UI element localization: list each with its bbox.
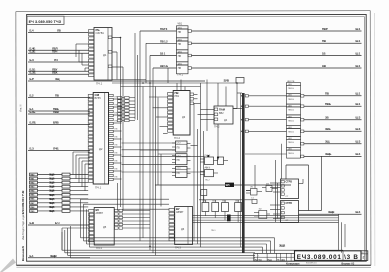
svg-text:ПВБ: ПВБ (325, 102, 331, 106)
svg-text:ПВ: ПВ (325, 92, 329, 96)
svg-text:1В: 1В (322, 51, 325, 55)
svg-text:Ш.1: Ш.1 (356, 92, 361, 96)
svg-text:ПВВ: ПВВ (53, 110, 59, 114)
svg-text:Формат А3: Формат А3 (341, 261, 355, 265)
svg-text:ЗЩ: ЗЩ (55, 77, 60, 81)
svg-text:Ш.3: Ш.3 (356, 140, 361, 144)
wire bus to D8 (245, 105, 286, 107)
svg-text:ПВ: ПВ (55, 94, 59, 98)
svg-text:Б.1: Б.1 (30, 254, 34, 258)
svg-text:ПЧ.1: ПЧ.1 (96, 82, 103, 86)
resistor pack RP2 (118, 97, 136, 122)
svg-text:Ш.3: Ш.3 (356, 127, 361, 131)
resistor R1 (202, 200, 209, 216)
svg-text:ПВ: ПВ (178, 31, 182, 34)
title block doc number (295, 251, 362, 261)
wire loop around D5 (81, 199, 90, 247)
svg-text:Д6: Д6 (181, 227, 185, 231)
svg-text:Лист: Лист (258, 260, 262, 262)
svg-text:Ш.4: Ш.4 (356, 152, 361, 156)
wire bus left riser (61, 228, 63, 250)
svg-text:ВУ55: ВУ55 (95, 96, 102, 100)
svg-text:ЗЩВ: ЗЩВ (49, 186, 55, 189)
svg-text:ПЧ.2: ПЧ.2 (174, 136, 180, 140)
svg-text:ПЧ.1: ПЧ.1 (95, 186, 102, 190)
IC D4 register (198, 106, 238, 160)
svg-text:ЕЧ3.089.001 \3 В: ЕЧ3.089.001 \3 В (297, 254, 359, 261)
svg-text:Б.Р: Б.Р (30, 77, 34, 81)
svg-text:ЧВ1: ЧВ1 (178, 23, 183, 26)
svg-text:Ш.3: Ш.3 (356, 116, 361, 120)
svg-text:1: 1 (258, 256, 259, 258)
svg-text:ПАР 3: ПАР 3 (160, 27, 168, 31)
svg-text:ПВ1.Б: ПВ1.Б (288, 121, 295, 123)
wire ЗУ1 net (155, 183, 291, 188)
svg-text:Инв. N: Инв. N (20, 104, 23, 112)
svg-text:Ш.1: Ш.1 (356, 27, 361, 31)
svg-text:Б.ЗБ: Б.ЗБ (30, 70, 36, 74)
wire vertical risers (118, 31, 345, 255)
svg-text:ЗЩВ: ЗЩВ (49, 210, 55, 213)
svg-text:ЗЩВ: ЗЩВ (49, 190, 55, 193)
svg-text:ЗЩВ: ЗЩВ (49, 194, 55, 197)
wire Б.ЛБ input (28, 121, 90, 125)
svg-text:Б.4: Б.4 (30, 29, 34, 33)
resistor R3 (222, 200, 229, 220)
svg-text:ЗВБ: ЗВБ (325, 127, 331, 131)
capacitor C1 (251, 198, 257, 204)
IC D2 processor (88, 93, 108, 190)
wire Б.2Б input (28, 49, 89, 53)
wire Б.4Б input (28, 46, 89, 50)
svg-text:ТВЧ: ТВЧ (52, 49, 57, 53)
gate G1 (200, 155, 218, 169)
IC D12 counter (172, 154, 191, 165)
svg-text:ЕЧ3.089.001 ТЧЗ: ЕЧ3.089.001 ТЧЗ (21, 190, 25, 214)
svg-text:ЛВХ: ЛВХ (52, 70, 58, 74)
wire D2 to counters (122, 143, 205, 172)
svg-text:Инв.N подл. Подп. и дата: Инв.N подл. Подп. и дата (22, 212, 25, 240)
wire col2 in4 drop (167, 68, 169, 83)
svg-text:СТРБ: СТРБ (286, 202, 293, 205)
buffer stack D8 (282, 81, 301, 179)
IC D6 latch (169, 207, 193, 250)
svg-text:ПВ1.Б: ПВ1.Б (288, 142, 295, 144)
wire ПАР 3 input (140, 27, 177, 31)
IC D3 decoder (168, 91, 201, 140)
wire Б.З input (28, 58, 89, 62)
svg-text:Б.ЛБ: Б.ЛБ (30, 121, 36, 125)
svg-text:ЗЩВ: ЗЩВ (49, 174, 55, 177)
svg-text:СТРБ: СТРБ (286, 181, 293, 184)
wire ПВ to connector (301, 92, 362, 98)
svg-text:ЧВ1 ПВ: ЧВ1 ПВ (287, 81, 295, 83)
svg-text:ПЧ.1: ПЧ.1 (178, 73, 184, 76)
svg-text:Б.В: Б.В (30, 221, 34, 225)
wire НВ output (188, 64, 362, 69)
svg-text:ПЧ.2: ПЧ.2 (214, 126, 220, 129)
wire Б.Р long (28, 77, 205, 81)
IC D2 right pins (109, 94, 122, 180)
svg-text:Д2: Д2 (99, 147, 103, 151)
wire bus group A (81, 238, 275, 254)
svg-text:Взам.инв.N: Взам.инв.N (21, 246, 25, 261)
IC D5 right pins (115, 209, 151, 229)
wire bus to D8 (245, 95, 286, 97)
svg-text:ЗЩВ: ЗЩВ (279, 243, 285, 247)
gate E3 (262, 184, 278, 192)
title block list box (361, 251, 368, 261)
wire Б.1 bottom (28, 254, 90, 258)
wire ЗЩВ to connector (299, 210, 362, 214)
svg-text:ЕЧ 3.089.050 ТЧЗ: ЕЧ 3.089.050 ТЧЗ (29, 20, 62, 24)
svg-text:Б.З: Б.З (30, 58, 34, 62)
wire jogs to D1 pins (76, 44, 89, 71)
wire ПВБ to connector (301, 102, 362, 108)
svg-text:N док: N док (268, 260, 272, 262)
wire Б.1Б input (28, 110, 90, 114)
svg-text:ЛЧ: ЛЧ (54, 58, 58, 62)
comparator stack D2 (177, 23, 189, 77)
svg-text:ПВ1.Б: ПВ1.Б (288, 110, 295, 112)
wire staircase to D3 (149, 97, 168, 134)
svg-text:ПЧ.3: ПЧ.3 (175, 246, 181, 250)
svg-text:ПВ1.Б: ПВ1.Б (288, 88, 295, 90)
footer text (286, 261, 355, 265)
svg-text:ЕЧ3.089.001: ЕЧ3.089.001 (306, 263, 317, 265)
wire horizontal links (112, 80, 252, 200)
svg-text:ПВ: ПВ (177, 160, 181, 162)
svg-text:ГЧ1.2: ГЧ1.2 (205, 167, 211, 169)
svg-text:ЗЩВ: ЗЩВ (50, 254, 58, 258)
svg-text:ОЗУВ1: ОЗУВ1 (96, 31, 105, 35)
IC D9 trigger (270, 179, 303, 199)
svg-text:ЗЩ: ЗЩ (325, 140, 330, 144)
document stamp (top-left) (27, 16, 64, 24)
svg-text:ЗВ: ЗВ (325, 116, 329, 120)
wire ЗЩБ to connector (301, 152, 362, 158)
svg-text:ЗЩВ: ЗЩВ (328, 210, 334, 214)
wire bus to stack bottom (245, 153, 287, 155)
gate G3 (207, 155, 228, 165)
wire data bus D6 out (193, 216, 339, 223)
resistor network RP1 (30, 173, 89, 213)
wire 1В 1 input (150, 52, 177, 56)
drawing frame (27, 15, 367, 262)
svg-text:Ш.1: Ш.1 (356, 51, 361, 55)
wire Б.В input (28, 221, 89, 225)
wire ПВР output (188, 27, 362, 33)
IC D11 counter (172, 141, 191, 152)
svg-text:НВ: НВ (322, 64, 326, 68)
wire D5 to D6 (81, 199, 170, 209)
left margin stamp text (20, 104, 26, 261)
wire bus to D8 (245, 130, 286, 132)
svg-text:Г: Г (363, 256, 365, 260)
wire Б.З input (28, 147, 90, 151)
wire ПВ 1.2 input (146, 39, 177, 43)
svg-text:Д1: Д1 (103, 53, 107, 57)
svg-text:ЗЩБ: ЗЩБ (325, 152, 331, 156)
svg-text:ЛЧБ: ЛЧБ (53, 147, 59, 151)
resistor R2 (212, 200, 219, 218)
svg-text:АВ5ВТ: АВ5ВТ (96, 212, 104, 215)
svg-text:Б.1Б: Б.1Б (30, 110, 36, 114)
wire feedback loop (286, 156, 322, 210)
svg-text:ПВ: ПВ (322, 39, 326, 43)
svg-text:Копировал: Копировал (286, 261, 300, 265)
svg-text:ЗЩВ: ЗЩВ (49, 202, 55, 205)
svg-text:ПВ: ПВ (177, 148, 181, 150)
svg-text:Д5: Д5 (103, 225, 107, 229)
title block table (254, 253, 295, 261)
svg-text:Д3: Д3 (182, 115, 186, 119)
wire НВ 1.Б input (153, 64, 177, 68)
svg-text:Лист: Лист (362, 252, 365, 254)
wire Б.1 input (28, 107, 90, 111)
svg-text:ЗЩВ: ЗЩВ (49, 198, 55, 201)
svg-text:ПВ: ПВ (178, 43, 182, 46)
svg-text:АВ5ВТ: АВ5ВТ (176, 211, 184, 214)
svg-text:Ш.1: Ш.1 (356, 64, 361, 68)
svg-text:Б.З: Б.З (30, 147, 34, 151)
diode VD1 (227, 215, 231, 222)
wire resistor top rail (199, 199, 242, 201)
IC D10 trigger (270, 201, 299, 223)
IC D1 RAM (89, 28, 123, 86)
gate E1 (246, 187, 262, 196)
svg-text:Ш.4: Ш.4 (356, 210, 361, 214)
svg-text:Ш.1: Ш.1 (356, 102, 361, 106)
svg-text:ПВ1.Б: ПВ1.Б (288, 153, 295, 155)
svg-text:ПВ 1.2: ПВ 1.2 (160, 39, 168, 43)
wire bus group B (62, 226, 343, 261)
svg-text:Б.2: Б.2 (30, 94, 34, 98)
svg-text:ПВ1.Б: ПВ1.Б (288, 99, 295, 101)
wire ЗВ to connector (301, 116, 362, 122)
svg-text:НВ 1.Б: НВ 1.Б (160, 64, 168, 68)
svg-text:ПВР: ПВР (322, 27, 328, 31)
svg-text:Б.2Б: Б.2Б (30, 49, 36, 53)
svg-text:ЗЩВ: ЗЩВ (49, 206, 55, 209)
IC D13 counter (172, 166, 191, 177)
junctions (120, 37, 243, 247)
wire ПВ output (188, 39, 362, 45)
wire 1В output (188, 51, 362, 57)
svg-text:ПВ: ПВ (177, 173, 181, 175)
IC D5 latch (89, 208, 115, 251)
svg-text:Ш.1: Ш.1 (356, 39, 361, 43)
gate G2 (200, 167, 218, 181)
wire Б.ЗБ input (28, 70, 89, 74)
resistor R4 (235, 200, 242, 223)
svg-text:ПЧ.3: ПЧ.3 (96, 246, 102, 250)
svg-text:ВЛВ: ВЛВ (53, 121, 59, 125)
svg-text:РВ1: РВ1 (175, 95, 180, 98)
svg-text:1В 1: 1В 1 (160, 52, 166, 56)
svg-text:ЗЩВ: ЗЩВ (49, 178, 55, 181)
wire Б.1Б input (28, 67, 89, 71)
wire ЗВБ to connector (301, 127, 362, 133)
svg-text:ПВ: ПВ (178, 67, 182, 70)
svg-text:ПВ: ПВ (178, 55, 182, 58)
gate E2 (254, 209, 270, 219)
wire bus to D8 (245, 119, 286, 121)
svg-text:ПВ1.Б: ПВ1.Б (288, 131, 295, 133)
svg-text:Б.Ч: Б.Ч (55, 221, 59, 225)
wire ЗЩ to connector (301, 140, 362, 146)
wire Б.2 input (28, 94, 90, 98)
bus bar B1 (224, 78, 245, 253)
svg-text:ЛВ: ЛВ (57, 29, 61, 33)
svg-text:ЗЩВ: ЗЩВ (49, 182, 55, 185)
box F1 (201, 190, 207, 196)
svg-text:ВВ2: ВВ2 (219, 112, 224, 115)
wire staircase to D2 (73, 152, 90, 191)
wire Б.4 input (28, 29, 89, 33)
